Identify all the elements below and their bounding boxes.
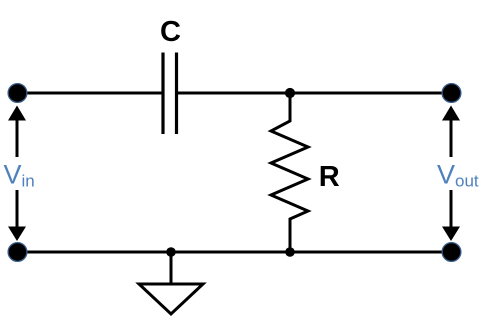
wire: top rail, left segment (input node to capacitor) — [18, 92, 162, 95]
svg-text:Vin: Vin — [4, 160, 35, 191]
wire: ground stub — [170, 252, 173, 284]
node: output terminal top-right — [442, 84, 461, 103]
node: input terminal bottom-left — [8, 243, 27, 262]
node: junction resistor bottom — [285, 247, 295, 257]
svg-text:C: C — [160, 16, 181, 48]
capacitor C — [163, 53, 177, 135]
svg-text:R: R — [319, 161, 340, 193]
node: output terminal bottom-right — [442, 243, 461, 262]
node: junction resistor top — [285, 88, 295, 98]
node: junction ground — [166, 247, 176, 257]
Vin arrow upper (points up to top-left terminal) — [8, 106, 26, 158]
Vout arrow upper (points up to top-right terminal) — [442, 106, 460, 158]
resistor R (zigzag) — [271, 95, 308, 250]
wire: top rail, right segment (capacitor to output node) — [178, 92, 452, 95]
wire: bottom rail — [18, 251, 452, 254]
svg-text:Vout: Vout — [437, 160, 479, 191]
Vout arrow lower (points down to bottom-right terminal) — [442, 190, 460, 241]
ground — [139, 284, 203, 314]
Vin arrow lower (points down to bottom-left terminal) — [8, 190, 26, 241]
node: input terminal top-left — [8, 84, 27, 103]
